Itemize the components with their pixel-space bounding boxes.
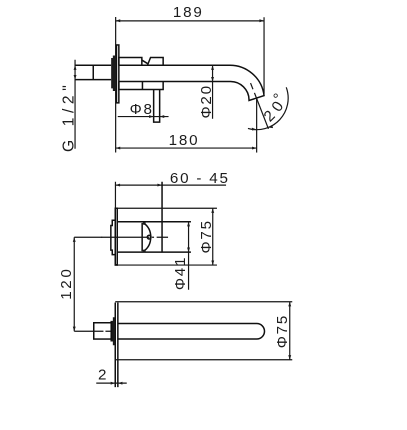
extension line right (189): [263, 17, 265, 94]
arrow G12 top: [74, 65, 77, 70]
dim line phi41: [188, 222, 190, 290]
angle arc 20deg: [248, 87, 288, 129]
outlet axis 20deg dash-dot: [251, 83, 253, 89]
arrow G12 bottom: [74, 75, 77, 80]
dim line phi8: [118, 116, 169, 118]
escutcheon plate middle: [115, 208, 117, 265]
dim line 180: [116, 147, 257, 149]
arrow 60-45 left: [115, 184, 120, 187]
arrow phi41 bottom: [187, 248, 190, 253]
extension line under tip: [256, 98, 258, 152]
svg-text:Φ20: Φ20: [198, 84, 215, 118]
knob pivot top: [143, 222, 146, 225]
dim line phi20: [212, 65, 214, 119]
arrow 2 right: [118, 382, 123, 385]
arrow phi75b bottom: [288, 355, 291, 360]
phi75 extension top: [115, 207, 217, 209]
nut centerline: [74, 330, 111, 332]
svg-text:Φ75: Φ75: [198, 219, 215, 253]
body phi41 bottom line: [117, 251, 191, 253]
arrow 120 top: [73, 237, 76, 242]
dim line phi75 middle: [212, 208, 214, 265]
body phi41 top line: [117, 221, 191, 223]
wall / extension line left: [115, 17, 117, 153]
tick 120 top: [74, 236, 102, 238]
recessed cone steps: [111, 220, 115, 254]
lever pointer: [142, 60, 148, 64]
arrow phi75m bottom: [211, 260, 214, 265]
arrow 189 right: [259, 19, 264, 22]
dim line 189: [116, 20, 264, 22]
svg-text:Φ8: Φ8: [130, 101, 154, 118]
arc arrow at vertical: [252, 128, 257, 131]
arrow phi41 top: [187, 222, 190, 227]
arrow phi75m top: [211, 208, 214, 213]
arrow phi20 bottom: [211, 77, 214, 82]
under body housing: [119, 82, 163, 90]
dim line 60-45: [115, 184, 226, 186]
body front face / extension right (60-45): [161, 182, 163, 253]
svg-text:G 1/2": G 1/2": [60, 81, 77, 152]
svg-text:189: 189: [173, 4, 204, 21]
extension wall left (60-45): [114, 182, 116, 209]
nut collar dark: [110, 317, 115, 345]
arrow phi75b top: [288, 302, 291, 307]
phi75b extension top: [115, 301, 292, 303]
dim line G 1/2: [74, 60, 76, 149]
dim line 2: [96, 382, 127, 384]
centerline middle: [101, 236, 168, 238]
svg-text:120: 120: [58, 267, 75, 300]
arrow 180 left: [116, 147, 121, 150]
arrow 180 right: [252, 147, 257, 150]
phi75 extension bottom: [115, 264, 217, 266]
arc arrow at 20deg line: [268, 125, 273, 128]
svg-text:2: 2: [98, 367, 108, 384]
svg-text:60 - 45: 60 - 45: [170, 170, 230, 187]
inlet pipe G 1/2: [75, 64, 111, 66]
rod phi8: [154, 90, 160, 123]
arrow 189 left: [116, 19, 121, 22]
svg-text:Φ75: Φ75: [274, 314, 291, 348]
arrow phi8 left: [149, 115, 154, 118]
plate left line: [114, 303, 116, 388]
svg-text:180: 180: [169, 132, 200, 149]
arrow 120 bottom: [73, 327, 76, 332]
flange plate: [116, 45, 118, 103]
plate right line: [117, 303, 119, 388]
phi75b extension bottom: [115, 359, 292, 361]
arrow 60-45 right: [157, 184, 162, 187]
svg-text:Φ41: Φ41: [172, 256, 189, 290]
dim line 120: [73, 237, 75, 331]
arrow phi20 top: [211, 65, 214, 70]
housing divider: [141, 82, 143, 90]
hex nut: [94, 323, 112, 339]
cartridge housing left block: [119, 57, 142, 65]
spout tube top view: [118, 324, 265, 340]
knob pivot bottom: [143, 249, 146, 252]
arrow phi8 right: [160, 115, 165, 118]
dim line phi75 bottom: [289, 302, 291, 360]
spout tube outline: [119, 65, 264, 100]
flange dark collar: [111, 55, 115, 90]
arrow 2 left: [111, 382, 116, 385]
pipe divider: [92, 65, 94, 79]
outlet axis solid: [254, 93, 268, 129]
knob flat: [141, 223, 143, 251]
knob curve: [143, 223, 151, 252]
cartridge housing right block: [147, 57, 163, 65]
knob center dot: [147, 235, 151, 239]
